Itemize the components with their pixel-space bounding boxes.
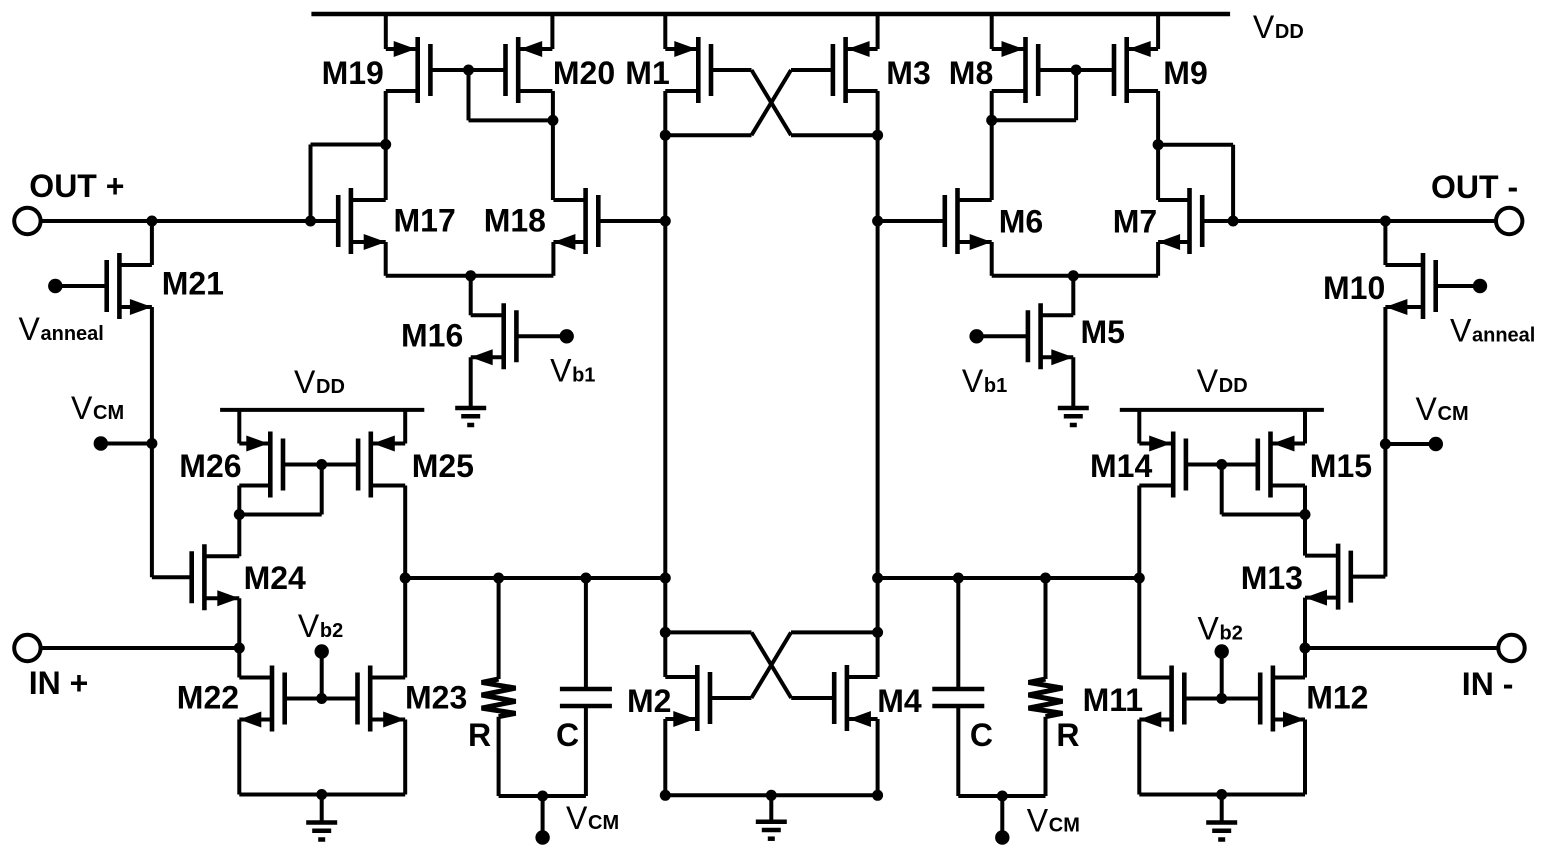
svg-text:M10: M10 [1323, 270, 1385, 306]
ground under M22/M23 [306, 820, 337, 825]
wire M6 gate to OUT- column [878, 219, 943, 223]
svg-text:DD: DD [316, 376, 345, 398]
wire VCM stub bottom right [1000, 796, 1004, 838]
VDD top rail [311, 12, 1230, 17]
wire VCM right stub [1385, 442, 1435, 446]
wire M18 gate to OUT+ column [598, 219, 665, 223]
wire Vb2 left to gates [320, 652, 324, 699]
svg-text:V: V [1450, 313, 1472, 349]
wire M21 source column [150, 307, 154, 577]
node M1 drain / M3 gate [660, 130, 671, 141]
wire M23 drain [403, 578, 407, 678]
node C right top [953, 573, 964, 584]
wire M19 drain column [384, 91, 388, 200]
svg-text:IN -: IN - [1462, 666, 1514, 702]
svg-text:V: V [1197, 363, 1219, 399]
transistor M10 (NMOS) [1421, 253, 1426, 319]
svg-text:M25: M25 [412, 448, 474, 484]
node M9 drain / bracket [1153, 139, 1164, 150]
node M3 drain / M1 gate [872, 130, 883, 141]
node VCM bottom right [997, 791, 1008, 802]
wire M26 drain [237, 486, 241, 515]
wire M15 drain [1303, 486, 1307, 515]
wire OUT- bracket [1231, 145, 1235, 221]
transistor M7 (NMOS) [1187, 188, 1192, 254]
wire M8 source feed [990, 12, 994, 49]
wire M2/M4 common source line [665, 793, 877, 797]
svg-text:M8: M8 [949, 55, 993, 91]
svg-text:M15: M15 [1310, 448, 1372, 484]
resistor R (right) [1029, 679, 1063, 717]
terminal IN- [1498, 635, 1524, 661]
transistor M14 (PMOS) [1171, 432, 1176, 498]
svg-text:C: C [556, 717, 579, 753]
wire M10 source column [1383, 307, 1387, 577]
wire M8 drain column [990, 91, 994, 200]
transistor M3 (PMOS) [843, 37, 848, 103]
node OUT+ / M21 drain [146, 216, 157, 227]
VDD rail left block [220, 408, 424, 412]
M19-M20 gate link wire [467, 70, 471, 120]
svg-text:M21: M21 [162, 266, 224, 302]
wire R-C top line right [878, 576, 1140, 580]
svg-text:anneal: anneal [1472, 325, 1535, 347]
svg-text:DD: DD [1219, 375, 1248, 397]
node R right top [1040, 573, 1051, 584]
terminal Vanneal (right) [1473, 279, 1487, 293]
wire IN- line [1305, 646, 1499, 650]
wire M23 source [403, 720, 407, 795]
wire M24 source to IN+ node [237, 598, 241, 648]
wire M2 source [663, 719, 667, 795]
wire ground stem center [769, 795, 773, 821]
wire M22/M23 common source line [239, 793, 405, 797]
node M14/M11 column / R-C line right [1134, 573, 1145, 584]
VDD rail right block [1120, 408, 1324, 412]
wire M17/M18 common source [384, 242, 388, 276]
transistor M22 (NMOS) [270, 666, 275, 732]
svg-text:V: V [71, 390, 93, 426]
node IN- / M13 source / M12 drain [1300, 643, 1311, 654]
svg-text:OUT -: OUT - [1431, 169, 1518, 205]
transistor M23 (NMOS) [368, 666, 373, 732]
svg-text:M19: M19 [322, 55, 384, 91]
svg-text:V: V [298, 608, 320, 644]
terminal Vb2 left [315, 644, 329, 658]
svg-text:b1: b1 [572, 365, 595, 387]
wire M15 diode link [1220, 465, 1224, 515]
wire OUT+ bracket [309, 145, 313, 222]
wire M19 source feed [384, 12, 388, 49]
node column / R-C line left [660, 573, 671, 584]
node OUT- / M10 drain [1380, 216, 1391, 227]
node M18 gate / column [660, 216, 671, 227]
transistor M6 (NMOS) [955, 188, 960, 254]
node M8/M9 gates [1071, 65, 1082, 76]
svg-text:b2: b2 [320, 620, 343, 642]
wire M9 source feed [1156, 12, 1160, 49]
svg-text:V: V [1027, 803, 1049, 839]
wire M24 drain [237, 515, 241, 557]
svg-text:M1: M1 [625, 55, 669, 91]
svg-text:M12: M12 [1306, 680, 1368, 716]
wire R left bottom [497, 717, 501, 796]
node M26/M25 gates [316, 459, 327, 470]
node R left top [493, 573, 504, 584]
wire C left top [584, 578, 588, 689]
wire C right top [956, 578, 960, 689]
transistor M4 [845, 665, 850, 731]
wire Vb2 right to gates [1220, 652, 1224, 699]
transistor M17 (NMOS) [349, 188, 354, 254]
capacitor C (left) [560, 687, 612, 692]
svg-text:M14: M14 [1090, 448, 1152, 484]
terminal VCM left [94, 436, 108, 450]
transistor M12 (NMOS) [1271, 666, 1276, 732]
wire M20 drain column [551, 91, 555, 200]
node M2 drain / M4 gate [660, 627, 671, 638]
svg-text:b1: b1 [984, 375, 1007, 397]
svg-text:M11: M11 [1083, 682, 1143, 718]
node M17/M18 sources [465, 270, 476, 281]
terminal OUT- [1496, 208, 1522, 234]
wire M4 gate cross-coupling [752, 632, 792, 698]
svg-text:M9: M9 [1163, 55, 1207, 91]
svg-text:M18: M18 [484, 203, 546, 239]
svg-text:V: V [1253, 9, 1275, 45]
svg-text:M22: M22 [177, 680, 239, 716]
node M22/M23 source line [316, 789, 327, 800]
wire M25 drain [403, 486, 407, 579]
capacitor C (right) [932, 687, 984, 692]
wire OUT- line [1204, 219, 1497, 223]
svg-text:R: R [468, 717, 491, 753]
wire M6/M7 common source [990, 242, 994, 276]
node M15 drain / M13 drain [1300, 509, 1311, 520]
svg-text:M3: M3 [886, 55, 930, 91]
svg-text:V: V [19, 311, 41, 347]
svg-text:M16: M16 [401, 318, 463, 354]
svg-text:M20: M20 [553, 55, 615, 91]
svg-text:M13: M13 [1241, 560, 1303, 596]
transistor M8 (PMOS) [1023, 37, 1028, 103]
svg-text:M23: M23 [405, 680, 467, 716]
ground under M5 [1058, 406, 1089, 411]
svg-text:V: V [550, 353, 572, 389]
transistor M2 [695, 665, 700, 731]
transistor M20 (PMOS) [516, 37, 521, 103]
wire M26 feed [237, 408, 241, 444]
wire VCM left stub [101, 442, 152, 446]
transistor M25 (PMOS) [368, 432, 373, 498]
wire M2 gate cross-coupling [751, 632, 791, 698]
wire M3 gate cross-coupling [752, 70, 792, 135]
node M26 drain / M24 drain [234, 509, 245, 520]
svg-text:M24: M24 [244, 560, 306, 596]
node IN+ / M24 source / M22 drain [234, 643, 245, 654]
ground under M11/M12 [1206, 820, 1237, 825]
transistor M5 (NMOS) [1038, 303, 1043, 369]
node M8 drain-gate [986, 115, 997, 126]
transistor M24 (NMOS) [202, 544, 207, 610]
node M6/M7 sources [1068, 270, 1079, 281]
svg-text:M6: M6 [999, 204, 1043, 240]
svg-text:CM: CM [588, 812, 619, 834]
wire M10 drain [1383, 221, 1387, 265]
node OUT- bracket [1228, 216, 1239, 227]
node M11/M12 source line [1216, 789, 1227, 800]
svg-text:V: V [294, 364, 316, 400]
svg-text:M5: M5 [1081, 314, 1125, 350]
terminal IN+ [14, 635, 40, 661]
wire M15 feed [1303, 408, 1307, 444]
svg-text:V: V [1198, 610, 1220, 646]
node M19 drain / bracket [380, 139, 391, 150]
transistor M13 (NMOS) [1336, 544, 1341, 610]
wire VCM stub bottom left [541, 796, 545, 838]
wire M14 feed [1137, 408, 1141, 444]
node M2 source corner [660, 790, 671, 801]
wire M20 source feed [550, 12, 554, 49]
node M19/M20 gates [463, 65, 474, 76]
wire M22 drain [237, 648, 241, 678]
node M2/M4 source center [766, 790, 777, 801]
transistor M16 (NMOS) [501, 303, 506, 369]
wire M3 source feed [876, 12, 880, 49]
transistor M19 (PMOS) [415, 37, 420, 103]
wire M11 source [1137, 720, 1141, 795]
wire M1 source feed [663, 12, 667, 49]
wire ground stem left [320, 795, 324, 823]
wire M12 drain [1303, 648, 1307, 678]
node M20 drain-gate [547, 115, 558, 126]
wire M26 diode link [320, 465, 324, 515]
wire R left top [497, 578, 501, 679]
wire M13 drain [1303, 515, 1307, 556]
wire C left bottom [584, 706, 588, 796]
svg-text:V: V [962, 363, 984, 399]
wire M4 source [876, 719, 880, 795]
wire R-C bottom line left [499, 794, 586, 798]
svg-text:CM: CM [93, 402, 124, 424]
node VCM left [146, 438, 157, 449]
node M4 source corner [872, 790, 883, 801]
transistor M9 (PMOS) [1124, 37, 1129, 103]
transistor M1 (PMOS) [696, 37, 701, 103]
wire ground stem right [1220, 795, 1224, 823]
wire M21 drain [150, 221, 154, 265]
terminal VCM right [1429, 437, 1443, 451]
wire M5 source to ground [1071, 357, 1075, 408]
node M14/M15 gates [1216, 459, 1227, 470]
transistor M11 (NMOS) [1169, 666, 1174, 732]
wire R-C top line left [405, 576, 665, 580]
wire M9 drain column [1156, 91, 1160, 200]
svg-text:IN +: IN + [29, 665, 89, 701]
terminal Vb2 right [1215, 644, 1229, 658]
svg-text:M26: M26 [179, 448, 241, 484]
node C left top [580, 573, 591, 584]
wire OUT+ line [41, 219, 339, 223]
wire M11/M12 common source line [1139, 793, 1305, 797]
terminal Vb1 (left) [560, 329, 574, 343]
wire M16 drain [469, 276, 473, 316]
node M6 gate / column [872, 216, 883, 227]
wire M22 source [237, 720, 241, 795]
svg-text:OUT +: OUT + [29, 168, 124, 204]
ground under M16 [455, 406, 486, 411]
wire IN+ line [41, 646, 240, 650]
svg-text:C: C [970, 717, 993, 753]
ground under M2/M4 [756, 819, 787, 824]
svg-text:anneal: anneal [41, 323, 104, 345]
svg-text:CM: CM [1438, 403, 1469, 425]
node M11/M12 gates [1216, 693, 1227, 704]
wire M14 drain / M11 drain column [1137, 486, 1141, 680]
terminal Vanneal (left) [48, 279, 62, 293]
node column / R-C line right [872, 573, 883, 584]
svg-text:V: V [1416, 391, 1438, 427]
terminal Vb1 (right) [969, 329, 983, 343]
terminal OUT+ [14, 208, 40, 234]
terminal VCM bottom right [995, 830, 1009, 844]
wire M5 drain [1071, 276, 1075, 316]
node VCM bottom left [537, 791, 548, 802]
svg-text:DD: DD [1275, 21, 1304, 43]
svg-text:CM: CM [1049, 815, 1080, 837]
wire C right bottom [956, 706, 960, 796]
transistor M21 (NMOS) [117, 253, 122, 319]
node OUT+ / bracket [305, 216, 316, 227]
wire M25 feed [403, 408, 407, 444]
svg-text:M2: M2 [627, 683, 671, 719]
wire R-C bottom line right [958, 794, 1045, 798]
wire M1 gate cross-coupling [752, 70, 792, 135]
svg-text:b2: b2 [1220, 622, 1243, 644]
transistor M18 (NMOS) [583, 188, 588, 254]
wire M3 drain column (OUT- node) [876, 91, 880, 677]
node M22/M23 gates [316, 693, 327, 704]
wire R right top [1044, 578, 1048, 679]
svg-text:R: R [1056, 717, 1079, 753]
transistor M15 (PMOS) [1268, 432, 1273, 498]
svg-text:M17: M17 [394, 203, 456, 239]
wire M12 source [1303, 720, 1307, 795]
M8 gate link wire [1074, 70, 1078, 120]
node M4 drain / M2 gate [872, 627, 883, 638]
svg-text:V: V [566, 800, 588, 836]
node M25 drain / R-C line [400, 573, 411, 584]
wire R right bottom [1044, 717, 1048, 796]
wire M16 source to ground [469, 357, 473, 408]
wire M1 drain column (OUT+ node) [663, 91, 667, 677]
wire M13 source to IN- node [1303, 598, 1307, 648]
svg-text:M7: M7 [1113, 204, 1157, 240]
resistor R (left) [482, 679, 516, 717]
terminal VCM bottom left [535, 830, 549, 844]
node VCM right [1380, 439, 1391, 450]
svg-text:M4: M4 [877, 683, 922, 719]
transistor M26 (PMOS) [268, 432, 273, 498]
